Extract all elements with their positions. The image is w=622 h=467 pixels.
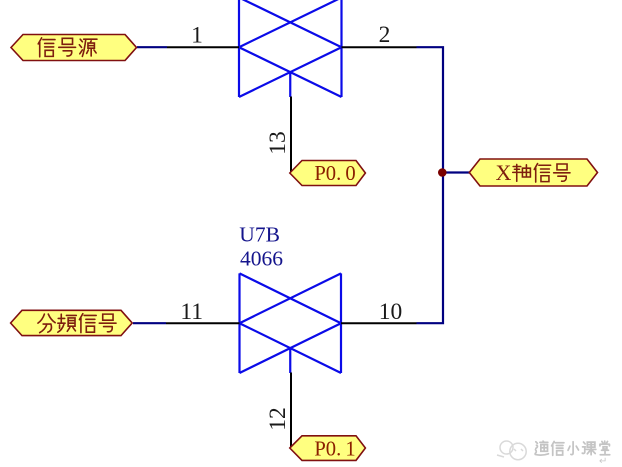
wire branch to port X轴信号 xyxy=(443,171,470,173)
port 分频信号 xyxy=(11,310,133,335)
watermark text 通信小课堂 xyxy=(535,441,610,455)
port X轴信号 xyxy=(469,159,597,186)
watermark icon xyxy=(497,441,526,460)
pin 2 of U7A xyxy=(342,46,417,48)
pin 12 of U7B (control) xyxy=(290,373,292,448)
svg-text:P0. 1: P0. 1 xyxy=(314,438,355,460)
svg-text:10: 10 xyxy=(379,299,403,325)
svg-text:12: 12 xyxy=(265,407,291,431)
port P0.1 xyxy=(290,436,366,461)
wire from port 信号源 to pin 1 xyxy=(137,46,167,48)
analog switch U7B (bottom 4066 section) xyxy=(240,273,342,373)
svg-text:U7B: U7B xyxy=(239,222,280,246)
pin 11 of U7B xyxy=(166,322,240,324)
svg-text:X: X xyxy=(496,160,512,185)
svg-text:4066: 4066 xyxy=(240,246,283,270)
pin 13 of U7A (control) xyxy=(290,97,292,172)
svg-text:13: 13 xyxy=(265,131,291,155)
svg-text:↵: ↵ xyxy=(599,456,607,467)
junction on net X轴信号 xyxy=(438,168,447,177)
wire from pin 2 down to pin 10 (net X轴信号) xyxy=(417,47,444,323)
svg-text:2: 2 xyxy=(379,22,391,48)
analog switch U7A (top 4066 section) xyxy=(239,0,342,97)
pin 1 of U7A xyxy=(167,46,239,48)
pin 10 of U7B xyxy=(341,322,417,324)
port 信号源 xyxy=(11,35,137,61)
port P0.0 xyxy=(290,161,366,186)
svg-text:P0. 0: P0. 0 xyxy=(314,163,355,185)
svg-text:11: 11 xyxy=(180,299,203,325)
wire from port 分频信号 to pin 11 xyxy=(133,322,166,324)
svg-text:1: 1 xyxy=(191,23,203,49)
